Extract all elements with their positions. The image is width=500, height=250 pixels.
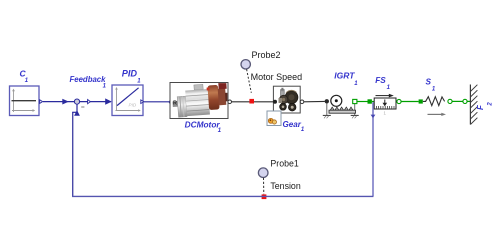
- svg-text:PID: PID: [129, 102, 137, 107]
- svg-text:1: 1: [301, 127, 305, 133]
- svg-text:Feedback: Feedback: [70, 75, 107, 84]
- svg-text:R: R: [173, 101, 177, 107]
- svg-text:2: 2: [487, 102, 493, 107]
- svg-text:1: 1: [384, 110, 387, 115]
- svg-text:1: 1: [137, 78, 141, 84]
- svg-text:Motor Speed: Motor Speed: [251, 72, 303, 82]
- svg-text:S: S: [426, 78, 432, 87]
- svg-text:1: 1: [354, 81, 358, 87]
- svg-text:FS: FS: [375, 76, 386, 85]
- svg-text:Probe1: Probe1: [270, 158, 298, 168]
- svg-text:1: 1: [25, 78, 29, 84]
- svg-text:Tension: Tension: [270, 181, 300, 191]
- svg-text:Probe2: Probe2: [252, 50, 281, 60]
- svg-text:1: 1: [218, 128, 222, 134]
- svg-text:Gear: Gear: [283, 120, 302, 129]
- svg-text:1: 1: [103, 83, 107, 89]
- svg-text:DCMotor: DCMotor: [185, 119, 221, 129]
- svg-text:IGRT: IGRT: [334, 71, 355, 81]
- svg-text:PID: PID: [122, 68, 138, 78]
- svg-text:1: 1: [432, 86, 436, 92]
- svg-text:C: C: [20, 68, 27, 78]
- svg-text:F: F: [476, 104, 485, 110]
- svg-text:1: 1: [387, 85, 391, 91]
